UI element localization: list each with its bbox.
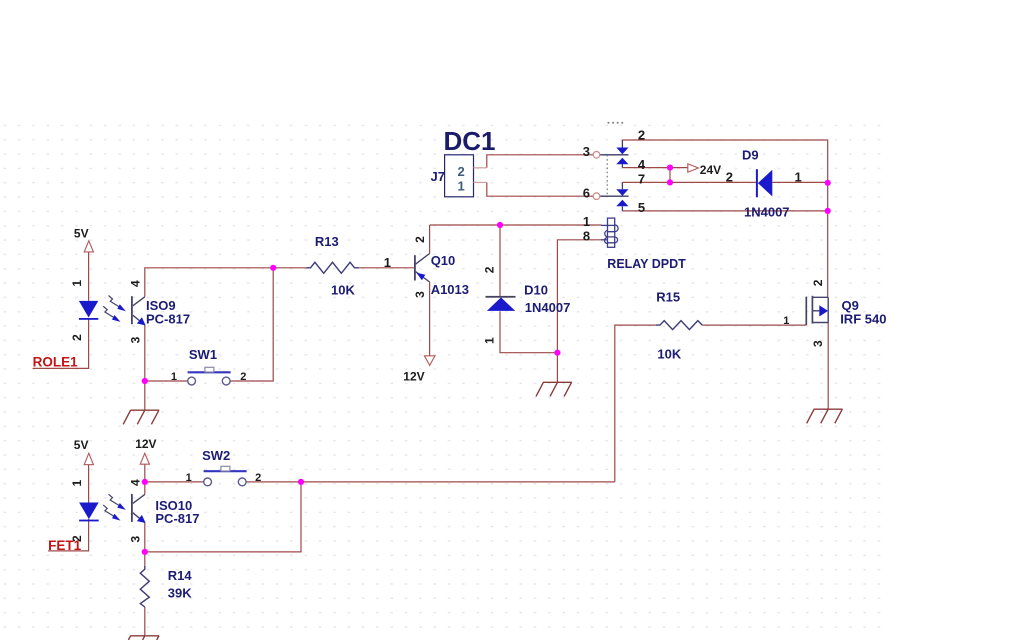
svg-text:1: 1 (171, 371, 177, 383)
svg-text:2: 2 (413, 236, 427, 243)
svg-text:2: 2 (458, 164, 465, 179)
svg-text:4: 4 (129, 479, 143, 486)
svg-text:ROLE1: ROLE1 (33, 354, 79, 369)
svg-text:5: 5 (638, 200, 645, 215)
svg-text:1: 1 (483, 337, 497, 344)
svg-text:2: 2 (483, 266, 497, 273)
svg-text:1: 1 (783, 315, 789, 327)
svg-text:4: 4 (129, 280, 143, 287)
svg-text:PC-817: PC-817 (146, 312, 190, 327)
svg-text:J7: J7 (431, 169, 445, 184)
svg-text:DC1: DC1 (444, 126, 496, 156)
svg-text:10K: 10K (331, 283, 355, 298)
svg-text:A1013: A1013 (431, 282, 469, 297)
svg-text:3: 3 (583, 144, 590, 159)
svg-text:1N4007: 1N4007 (744, 205, 790, 220)
svg-text:2: 2 (70, 535, 84, 542)
svg-text:2: 2 (240, 371, 246, 383)
svg-text:D9: D9 (742, 148, 759, 163)
svg-text:R15: R15 (656, 289, 680, 304)
svg-text:8: 8 (583, 229, 590, 244)
svg-text:5V: 5V (74, 226, 89, 240)
svg-text:1: 1 (795, 169, 802, 184)
svg-text:PC-817: PC-817 (155, 511, 199, 526)
svg-text:3: 3 (811, 340, 825, 347)
svg-text:7: 7 (638, 171, 645, 186)
svg-text:3: 3 (129, 336, 143, 343)
svg-text:24V: 24V (700, 163, 721, 177)
svg-text:1: 1 (458, 178, 465, 193)
svg-text:1N4007: 1N4007 (525, 300, 571, 315)
svg-text:SW2: SW2 (202, 448, 230, 463)
svg-text:6: 6 (583, 185, 590, 200)
svg-text:ISO9: ISO9 (146, 298, 176, 313)
svg-text:SW1: SW1 (189, 347, 217, 362)
svg-text:2: 2 (638, 127, 645, 142)
svg-text:5V: 5V (74, 438, 89, 452)
svg-text:1: 1 (186, 472, 192, 484)
svg-text:R13: R13 (315, 234, 339, 249)
svg-text:12V: 12V (403, 369, 424, 383)
svg-text:2: 2 (811, 279, 825, 286)
svg-text:3: 3 (413, 291, 427, 298)
svg-text:39K: 39K (168, 585, 192, 600)
svg-text:1: 1 (583, 214, 590, 229)
svg-text:D10: D10 (524, 283, 548, 298)
svg-text:1: 1 (70, 480, 84, 487)
svg-text:1: 1 (384, 255, 391, 270)
svg-text:2: 2 (255, 472, 261, 484)
svg-text:1: 1 (70, 280, 84, 287)
svg-text:IRF 540: IRF 540 (840, 311, 886, 326)
svg-text:RELAY DPDT: RELAY DPDT (607, 257, 686, 271)
svg-text:4: 4 (638, 157, 646, 172)
svg-text:R14: R14 (168, 568, 193, 583)
svg-text:2: 2 (726, 169, 733, 184)
svg-text:10K: 10K (657, 347, 681, 362)
svg-text:12V: 12V (135, 437, 156, 451)
svg-text:2: 2 (70, 334, 84, 341)
svg-text:3: 3 (129, 535, 143, 542)
svg-text:Q10: Q10 (431, 253, 456, 268)
